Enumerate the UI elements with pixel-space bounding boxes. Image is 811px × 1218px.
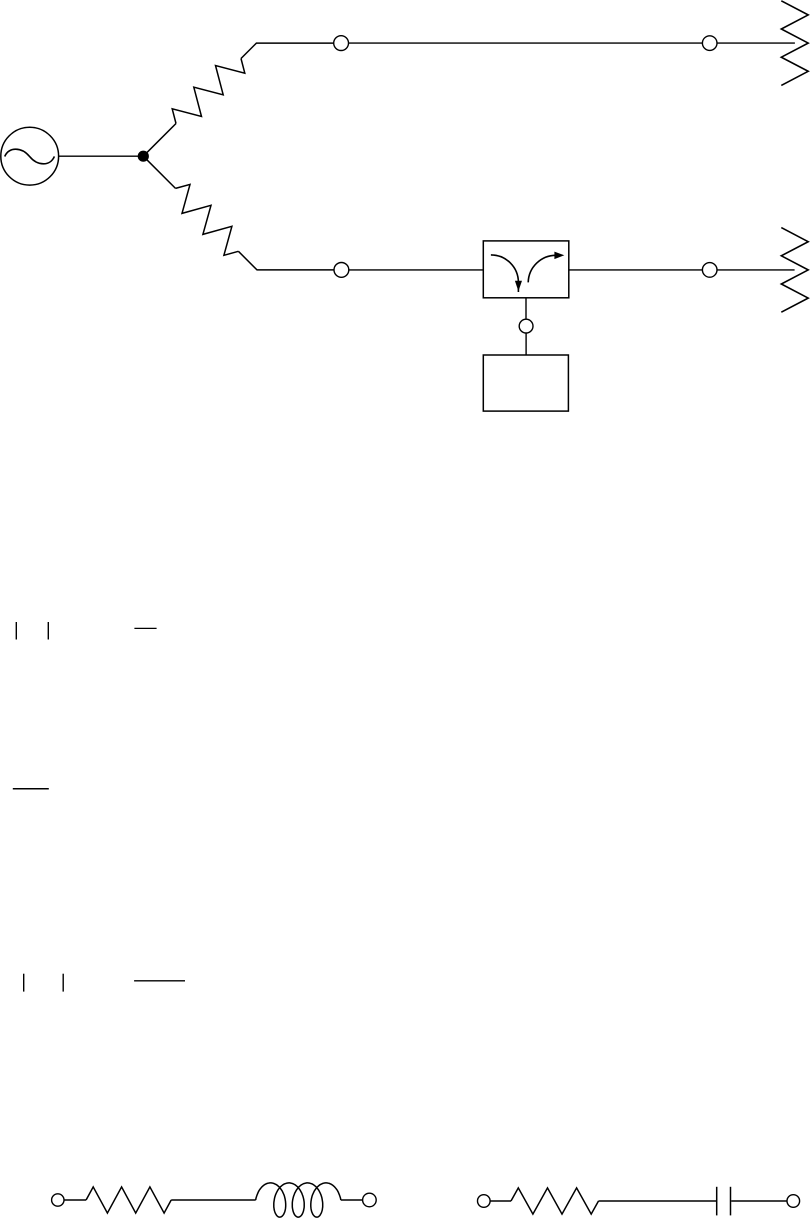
terminal T4: [787, 1195, 800, 1208]
wire: R4 to C1: [599, 1200, 717, 1202]
wire: P4 to load RL2: [717, 269, 795, 271]
wire: P5 to power meter: [525, 333, 527, 355]
resistor R3: [86, 1187, 171, 1213]
absolute-value bar (eq.3 left): [23, 974, 25, 992]
inductor L1: [256, 1183, 341, 1217]
wire: P2 to load RL1: [717, 42, 795, 44]
port circle P5: [519, 319, 533, 333]
AC source VS: [1, 127, 59, 185]
wire: source to node: [59, 155, 144, 157]
wire: P3 to coupler: [349, 269, 484, 271]
wire: node to R1: [143, 124, 176, 157]
wire: coupler down to port P5: [525, 298, 527, 319]
port circle P4: [702, 263, 717, 278]
terminal T2: [363, 1193, 377, 1207]
resistor R2 (lower branch): [176, 184, 239, 255]
wire: R1 to port circle P1: [241, 43, 334, 58]
wire: coupler to port P4: [569, 269, 703, 271]
load resistor RL1: [781, 1, 808, 86]
coupler U1 box: [483, 241, 569, 298]
wire: R3 to L1: [171, 1199, 256, 1201]
capacitor C1 plate right: [730, 1187, 732, 1216]
absolute-value bar (eq.1 left): [15, 622, 17, 640]
wire: P1 to P2: [349, 42, 703, 44]
fraction bar (eq.1): [134, 627, 156, 629]
terminal T1: [52, 1194, 64, 1206]
port circle P1: [334, 36, 349, 51]
node: junction dot: [138, 151, 149, 162]
port circle P2: [702, 36, 717, 51]
wire: L1 to T2: [341, 1199, 363, 1201]
terminal T3: [478, 1195, 491, 1208]
absolute-value bar (eq.1 right): [47, 622, 49, 640]
wire: T3 to R4: [490, 1200, 511, 1202]
resistor R1 (upper branch): [172, 59, 245, 124]
wire: R2 to port circle P3: [238, 251, 334, 270]
coupler arrow: through path (down): [491, 255, 522, 292]
wire: T1 to R3: [64, 1199, 86, 1201]
fraction bar (eq.3): [134, 980, 185, 982]
absolute-value bar (eq.3 right): [62, 974, 64, 992]
wire: C1 to T4: [731, 1200, 787, 1202]
capacitor C1 plate left: [716, 1187, 718, 1216]
wire: node to R2: [143, 156, 175, 188]
port circle P3: [334, 263, 349, 278]
load resistor RL2: [781, 228, 808, 313]
fraction bar (eq.2): [13, 788, 49, 790]
resistor R4: [511, 1188, 599, 1214]
coupler arrow: coupled port (right): [528, 252, 564, 283]
power meter box M1: [483, 355, 568, 411]
